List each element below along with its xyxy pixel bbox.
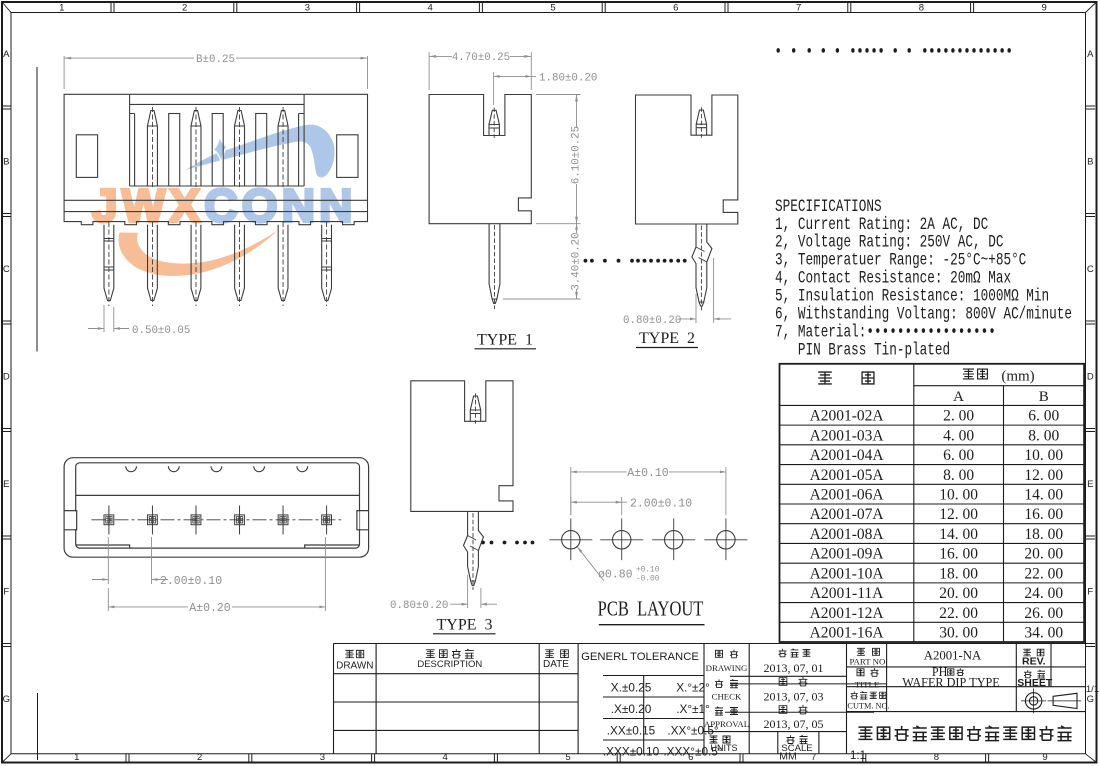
svg-text:18. 00: 18. 00 [939,565,978,582]
svg-text:E: E [1087,479,1093,490]
size table [780,364,1085,642]
svg-text:5: 5 [565,752,570,763]
dimension 0.80±0.20 (type 3) [450,575,497,608]
svg-text:ø0.80: ø0.80 [598,569,633,582]
svg-text:16. 00: 16. 00 [939,546,978,563]
svg-text:26. 00: 26. 00 [1024,605,1063,622]
svg-text:A2001-12A: A2001-12A [810,605,885,622]
svg-text:PIN Brass Tin-plated: PIN Brass Tin-plated [775,339,950,360]
svg-text:6. 00: 6. 00 [943,447,974,464]
svg-text:3: 3 [320,752,325,763]
svg-text:1/1: 1/1 [1086,684,1099,695]
svg-text:B: B [3,157,9,168]
front view recess pins [147,107,288,189]
svg-text:REV.: REV. [1022,655,1046,667]
svg-text:8. 00: 8. 00 [1028,427,1059,444]
svg-text:B±0.25: B±0.25 [196,54,235,66]
third angle projection symbol [1021,689,1081,714]
TYPE 2 side view body [636,95,738,224]
dotted separator top right [777,48,1011,53]
svg-text:A2001-NA: A2001-NA [924,648,982,662]
svg-text:A2001-03A: A2001-03A [810,427,885,444]
drawing/check/approval column [716,650,723,657]
svg-text:6.10±0.25: 6.10±0.25 [571,126,583,184]
svg-text:4: 4 [428,2,433,13]
svg-text:1.80±0.20: 1.80±0.20 [539,72,597,84]
svg-text:10. 00: 10. 00 [939,486,978,503]
svg-text:TYPE 1: TYPE 1 [477,332,533,349]
watermark orange swoosh [119,231,278,277]
svg-text:(mm): (mm) [1001,369,1034,385]
rev/sheet [1023,649,1031,656]
svg-text:UNITS: UNITS [711,743,738,753]
svg-text:34. 00: 34. 00 [1024,625,1063,642]
svg-text:PART NO.: PART NO. [849,657,887,667]
svg-text:1:1: 1:1 [850,750,866,762]
svg-text:0.50±0.05: 0.50±0.05 [132,325,190,337]
dimension 4.70±0.25 [429,52,531,90]
svg-text:3: 3 [305,2,310,13]
bottom view housing [64,458,369,558]
svg-text:A2001-06A: A2001-06A [810,486,885,503]
partial vertical margin line left [36,67,38,352]
svg-text:12. 00: 12. 00 [1024,467,1063,484]
svg-text:CHECK: CHECK [712,692,742,702]
svg-text:E: E [3,479,9,490]
svg-text:D: D [3,372,10,383]
svg-text:4.70±0.25: 4.70±0.25 [452,52,510,64]
header hanzi hao [862,372,874,384]
watermark logo JWXCONN [92,125,357,276]
svg-text:A±0.20: A±0.20 [189,602,231,615]
svg-text:2: 2 [197,752,202,763]
dimension 1.80±0.20 [494,72,536,105]
svg-text:X.±0.25: X.±0.25 [611,681,652,695]
dimension 0.80±0.20 (type 2) [679,258,731,323]
svg-text:A±0.10: A±0.10 [627,467,669,480]
svg-text:2.00±0.10: 2.00±0.10 [160,575,222,588]
dimension 6.10±0.25 [536,95,581,224]
svg-text:16. 00: 16. 00 [1024,506,1063,523]
hanzi zhang ming [779,678,787,686]
TYPE 3 pin below with kink [464,511,484,590]
svg-text:WAFER DIP TYPE: WAFER DIP TYPE [902,676,1000,690]
svg-text:10. 00: 10. 00 [1024,447,1063,464]
header hanzi bian [818,372,832,384]
svg-text:.XX±0.15: .XX±0.15 [607,723,656,737]
svg-text:14. 00: 14. 00 [1024,486,1063,503]
svg-text:D: D [1087,372,1094,383]
dotted separator middle [584,259,687,263]
svg-text:C: C [1087,264,1094,275]
svg-text:APPROVAL: APPROVAL [704,719,749,729]
svg-text:A2001-11A: A2001-11A [810,585,884,602]
TYPE 2 pin below with kink [692,224,712,311]
dimension 2.00±0.10 (bottom view) [92,537,168,584]
TYPE 1 pin in notch [489,108,499,139]
svg-text:4: 4 [443,752,448,763]
dimension 3.40±0.20 [503,224,581,299]
svg-text:PCB LAYOUT: PCB LAYOUT [598,598,704,621]
svg-text:8: 8 [919,2,924,13]
svg-text:JWXCONN: JWXCONN [92,180,357,232]
svg-text:TYPE 3: TYPE 3 [437,617,493,634]
TYPE 1 pin below [489,224,500,309]
svg-text:A2001-10A: A2001-10A [810,565,885,582]
hole diameter leader [577,547,604,581]
pcb layout holes [549,518,747,560]
svg-text:2013, 07, 05: 2013, 07, 05 [764,717,824,731]
front view bottom pins [104,222,332,306]
dimension B±0.25 [64,56,367,89]
dimension A±0.20 (bottom view) [108,537,325,611]
svg-text:A: A [1087,49,1094,60]
svg-text:-0.00: -0.00 [636,576,660,584]
bottom view pins [104,506,332,535]
svg-text:22. 00: 22. 00 [939,605,978,622]
svg-text:F: F [1087,587,1093,598]
dimension A±0.10 (pcb) [571,467,726,515]
hanzi liaohao [857,648,865,655]
svg-text:A2001-04A: A2001-04A [810,447,885,464]
bottom view centerline [92,519,342,521]
hanzi kehu liaohao [851,692,858,699]
svg-text:14. 00: 14. 00 [939,526,978,543]
svg-text:1: 1 [74,752,79,763]
svg-text:A: A [953,389,964,405]
hanzi riqi date [545,650,554,658]
svg-text:2013, 07, 01: 2013, 07, 01 [764,661,824,675]
dotted separator type3/pcb [481,541,534,545]
svg-text:5: 5 [550,2,555,13]
svg-text:GENERL TOLERANCE: GENERL TOLERANCE [581,651,699,663]
dimension 0.50±0.05 [88,305,129,332]
svg-text:SHEET: SHEET [1017,677,1053,689]
svg-text:TYPE 2: TYPE 2 [639,330,695,347]
svg-text:9: 9 [1042,2,1047,13]
watermark blue swoosh [186,125,335,178]
svg-text:8. 00: 8. 00 [943,467,974,484]
svg-text:B: B [1087,157,1093,168]
svg-text:A2001-08A: A2001-08A [810,526,885,543]
svg-text:DATE: DATE [543,659,569,670]
header hanzi chicun [963,369,974,379]
svg-text:.X°±1°: .X°±1° [676,702,710,716]
svg-text:CUTM. NO.: CUTM. NO. [847,701,889,710]
hanzi biangeng neirong [426,650,435,658]
svg-text:2: 2 [182,2,187,13]
svg-text:18. 00: 18. 00 [1024,526,1063,543]
svg-text:0.80±0.20: 0.80±0.20 [390,600,448,612]
svg-text:A2001-07A: A2001-07A [810,506,885,523]
svg-text:22. 00: 22. 00 [1024,565,1063,582]
svg-text:G: G [1087,694,1094,705]
svg-text:DRAWN: DRAWN [336,661,373,672]
bottom view top-edge bumps [126,466,308,471]
svg-text:A2001-05A: A2001-05A [810,467,885,484]
svg-text:B: B [1039,389,1049,405]
svg-text:A: A [3,49,10,60]
svg-text:+0.10: +0.10 [636,567,660,575]
svg-text:9: 9 [1042,752,1047,763]
svg-text:MM: MM [779,751,797,763]
TYPE 3 pin in notch [470,393,480,424]
svg-text:A2001-16A: A2001-16A [810,625,885,642]
watermark sparkle star [213,136,228,164]
svg-text:TITLE: TITLE [855,679,879,689]
title block grid [334,644,1086,754]
svg-text:C: C [3,264,10,275]
hanzi pinming [857,669,864,676]
svg-text:2. 00: 2. 00 [943,408,974,425]
svg-text:20. 00: 20. 00 [1024,546,1063,563]
dimension 2.00±0.10 (pcb) [571,497,627,515]
svg-text:DRAWING: DRAWING [706,663,748,673]
svg-text:1: 1 [59,2,64,13]
svg-text:0.80±0.20: 0.80±0.20 [623,315,681,327]
svg-text:A2001-02A: A2001-02A [810,408,885,425]
svg-text:20. 00: 20. 00 [939,585,978,602]
svg-text:2013, 07, 03: 2013, 07, 03 [764,689,824,703]
TYPE 2 pin in notch [696,107,706,138]
TYPE 1 side view body [429,95,531,224]
svg-text:G: G [3,694,10,705]
svg-text:.X±0.20: .X±0.20 [611,702,652,716]
svg-text:6: 6 [673,2,678,13]
svg-text:30. 00: 30. 00 [939,625,978,642]
svg-text:24. 00: 24. 00 [1024,585,1063,602]
svg-text:4. 00: 4. 00 [943,427,974,444]
svg-text:2.00±0.10: 2.00±0.10 [630,497,692,510]
company name hanzi [858,727,872,739]
svg-text:.XXX±0.10: .XXX±0.10 [603,745,660,759]
svg-text:7: 7 [796,2,801,13]
front view connector body [64,94,367,224]
svg-text:X.°±2°: X.°±2° [676,681,710,695]
svg-text:A2001-09A: A2001-09A [810,546,885,563]
hanzi zhitu drawn [345,650,353,657]
TYPE 3 side view body [411,381,513,512]
svg-text:3.40±0.20: 3.40±0.20 [571,232,583,290]
svg-text:DESCRIPTION: DESCRIPTION [417,659,482,670]
svg-text:12. 00: 12. 00 [939,506,978,523]
svg-text:6. 00: 6. 00 [1028,408,1059,425]
hanzi qianyuesheng [779,649,787,657]
svg-text:F: F [3,587,9,598]
svg-text:8: 8 [934,752,939,763]
